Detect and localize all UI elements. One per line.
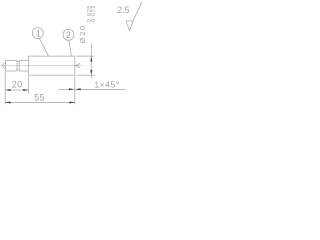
dimension 20 line: [5, 89, 28, 91]
svg-text:-0.072: -0.072: [91, 5, 97, 25]
svg-text:1: 1: [36, 29, 41, 39]
leader 1: [40, 38, 49, 56]
diameter dimension line: [90, 44, 92, 79]
svg-text:Ø20: Ø20: [78, 24, 87, 43]
arrow dia top: [90, 56, 92, 61]
svg-text:1×45°: 1×45°: [94, 80, 119, 90]
arrow dim55 right: [69, 102, 74, 104]
small cylinder A: [6, 60, 18, 71]
svg-text:2: 2: [66, 30, 71, 40]
thread relief groove: [17, 60, 19, 71]
balloon 1: [32, 28, 43, 39]
arrow dim55 left: [5, 102, 10, 104]
large cylinder: [29, 56, 75, 75]
arrow chamfer left: [69, 88, 74, 90]
svg-text:55: 55: [34, 92, 45, 102]
roughness symbol: [126, 2, 142, 31]
arrow dim20 left: [5, 89, 10, 91]
svg-text:20: 20: [12, 80, 23, 90]
arrow dia bottom: [90, 70, 92, 75]
leader 2: [69, 40, 71, 56]
dimension 20 extension lines: [5, 72, 28, 105]
end-face arrow: [75, 64, 80, 68]
arrow dim20 right: [23, 89, 28, 91]
balloon 2: [63, 29, 74, 40]
chamfer dimension line: [59, 88, 127, 90]
svg-text:2.5: 2.5: [117, 5, 129, 15]
centerline: [1, 65, 83, 67]
diameter dimension extension lines: [76, 56, 94, 75]
dimension 55 extension line right: [74, 76, 76, 104]
arrow chamfer right: [75, 88, 80, 90]
step shoulder: [28, 56, 30, 75]
dimension 55 line: [5, 102, 75, 104]
small cylinder B: [19, 60, 28, 71]
cone point: [2, 60, 5, 71]
